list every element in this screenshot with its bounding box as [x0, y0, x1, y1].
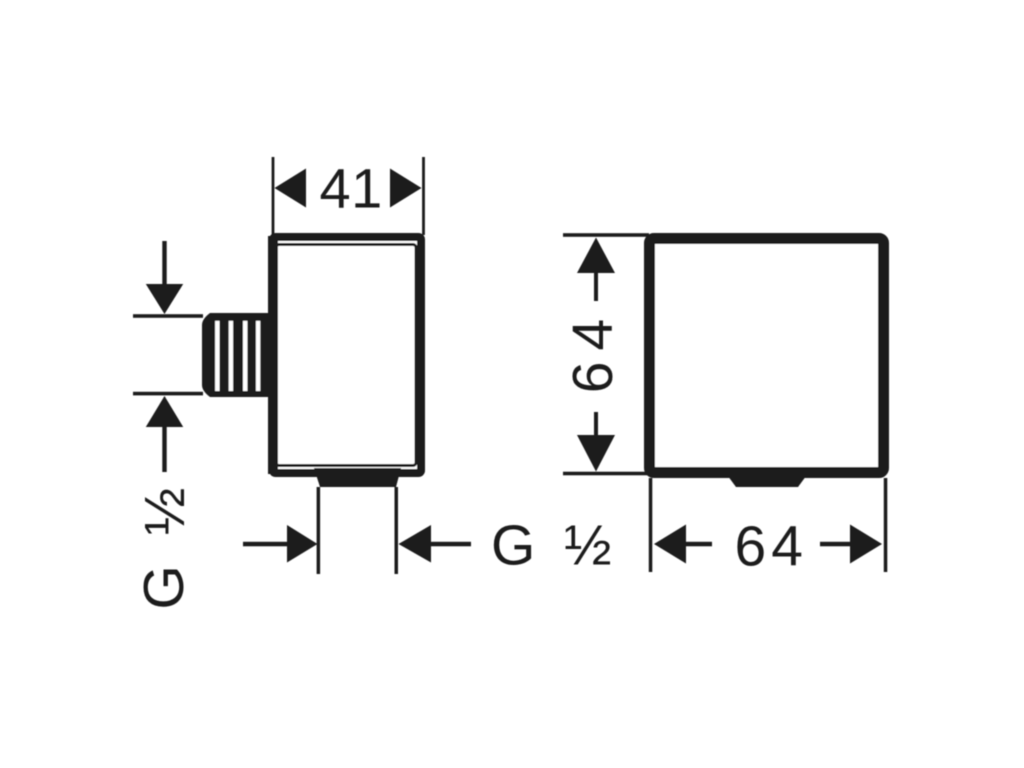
- outlet left line: [317, 487, 321, 574]
- thread top extension line: [133, 314, 203, 318]
- svg-text:G: G: [491, 514, 535, 578]
- right view left extension line below: [649, 478, 653, 572]
- svg-text:½: ½: [133, 488, 197, 536]
- thread dim lower arrow line: [162, 427, 166, 472]
- svg-text:½: ½: [564, 514, 612, 578]
- outlet dim right arrowhead (left): [399, 525, 432, 563]
- dim 64 vertical top extension line: [563, 233, 649, 237]
- dim 41 left extension line: [272, 157, 275, 235]
- outlet dim right line: [431, 542, 471, 547]
- dim 64 vertical upper arrowhead (up): [577, 238, 615, 274]
- thread nipple G1/2 block: [202, 313, 272, 397]
- dim 64 vertical upper stub: [594, 273, 598, 301]
- dim 64 horizontal left arrowhead: [654, 525, 686, 564]
- thread dim lower arrowhead (up): [146, 396, 183, 427]
- outlet dim left line: [243, 542, 287, 547]
- left view body inner face line: [276, 245, 416, 466]
- dim 64 horizontal left line: [686, 542, 712, 547]
- dim 64 horizontal right arrowhead: [850, 525, 882, 564]
- thread dim upper arrow line: [162, 241, 166, 286]
- svg-text:64: 64: [561, 308, 625, 393]
- thread dim upper arrowhead (down): [146, 284, 183, 314]
- left view body left edge thick band: [268, 236, 278, 474]
- dim 41 right arrowhead: [390, 169, 422, 208]
- svg-text:41: 41: [320, 157, 383, 220]
- left view bottom outlet trapezoid: [314, 468, 401, 487]
- right view square outline: [650, 239, 884, 473]
- thread slot 3: [243, 321, 247, 391]
- dim 64 vertical lower arrowhead (down): [577, 435, 615, 472]
- svg-text:G: G: [132, 565, 196, 609]
- thread bottom extension line: [133, 392, 203, 396]
- thread slot 2: [229, 321, 233, 391]
- dim 41 right extension line: [422, 157, 425, 235]
- svg-text:64: 64: [735, 515, 808, 579]
- thread slot 4: [256, 321, 260, 391]
- outlet dim left arrowhead (right): [287, 525, 318, 563]
- dim 64 vertical lower stub: [594, 412, 598, 435]
- outlet right line: [395, 487, 399, 574]
- dim 41 left arrowhead: [275, 169, 307, 208]
- left view body outline: [273, 237, 421, 473]
- thread slot 1: [215, 321, 219, 391]
- dim 64 horizontal right line: [820, 542, 850, 547]
- dim 64 vertical bottom extension line: [563, 472, 650, 476]
- right view bottom outlet trapezoid: [722, 468, 812, 487]
- right view right extension line below: [884, 478, 888, 572]
